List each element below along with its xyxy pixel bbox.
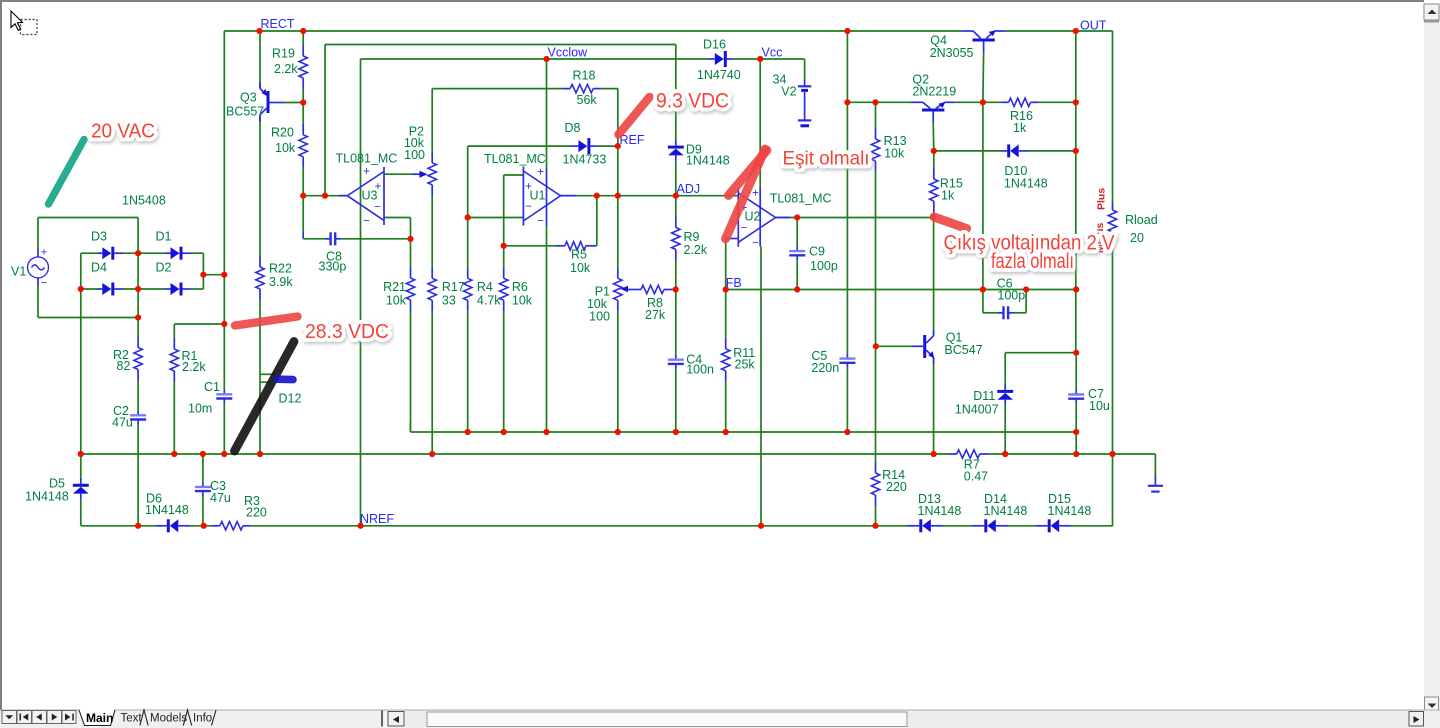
svg-text:Info: Info — [193, 713, 212, 725]
svg-text:−: − — [363, 216, 370, 228]
svg-text:RECT: RECT — [261, 17, 295, 31]
svg-text:Models: Models — [150, 713, 187, 725]
svg-text:D11: D11 — [973, 389, 995, 403]
svg-text:1k: 1k — [1013, 121, 1027, 135]
svg-text:47u: 47u — [112, 416, 133, 430]
svg-text:10k: 10k — [386, 294, 407, 308]
svg-text:100n: 100n — [686, 363, 714, 377]
svg-text:R20: R20 — [271, 126, 294, 140]
svg-text:FB: FB — [726, 276, 742, 290]
svg-text:+: + — [363, 166, 370, 178]
svg-text:BC547: BC547 — [944, 343, 982, 357]
svg-text:−: − — [525, 201, 532, 213]
svg-text:1N4148: 1N4148 — [984, 504, 1028, 518]
svg-text:220: 220 — [886, 480, 907, 494]
svg-text:47u: 47u — [210, 491, 231, 505]
svg-text:U3: U3 — [362, 189, 378, 203]
svg-text:1N4148: 1N4148 — [918, 504, 962, 518]
svg-text:2N2219: 2N2219 — [912, 85, 956, 99]
svg-text:10k: 10k — [512, 294, 533, 308]
svg-text:10k: 10k — [570, 261, 591, 275]
svg-text:R6: R6 — [512, 280, 528, 294]
svg-text:R21: R21 — [383, 280, 406, 294]
svg-text:D8: D8 — [565, 121, 581, 135]
svg-text:82: 82 — [117, 359, 131, 373]
svg-text:1N4148: 1N4148 — [1048, 504, 1092, 518]
svg-text:100: 100 — [404, 148, 425, 162]
svg-text:U2: U2 — [745, 210, 761, 224]
svg-text:R22: R22 — [269, 262, 292, 276]
svg-text:2.2k: 2.2k — [684, 243, 708, 257]
svg-text:33: 33 — [442, 294, 456, 308]
svg-text:ADJ: ADJ — [677, 182, 701, 196]
svg-text:fazla olmalı: fazla olmalı — [991, 250, 1074, 273]
svg-text:OUT: OUT — [1080, 19, 1107, 33]
svg-text:D16: D16 — [703, 38, 726, 52]
svg-text:100: 100 — [589, 310, 610, 324]
svg-text:TL081_MC: TL081_MC — [770, 192, 832, 206]
svg-text:Plus: Plus — [1096, 188, 1108, 210]
svg-text:10k: 10k — [884, 147, 905, 161]
svg-text:1N4007: 1N4007 — [955, 403, 999, 417]
svg-text:R18: R18 — [573, 69, 596, 83]
svg-text:1N4148: 1N4148 — [145, 503, 189, 517]
svg-text:0.47: 0.47 — [964, 470, 988, 484]
svg-text:−: − — [741, 223, 748, 235]
svg-text:R9: R9 — [684, 230, 700, 244]
svg-text:1N4148: 1N4148 — [25, 490, 69, 504]
svg-text:TL081_MC: TL081_MC — [336, 152, 398, 166]
svg-text:D5: D5 — [49, 477, 65, 491]
svg-text:220: 220 — [246, 506, 267, 520]
svg-text:R17: R17 — [442, 280, 465, 294]
svg-text:2.2k: 2.2k — [182, 360, 206, 374]
svg-text:R19: R19 — [272, 47, 295, 61]
svg-text:−: − — [752, 238, 759, 250]
svg-text:R4: R4 — [477, 280, 493, 294]
svg-text:100p: 100p — [997, 289, 1025, 303]
svg-text:1N4148: 1N4148 — [1004, 177, 1048, 191]
svg-text:100p: 100p — [810, 259, 838, 273]
svg-text:−: − — [41, 278, 48, 290]
svg-text:Q3: Q3 — [240, 91, 257, 105]
svg-text:1k: 1k — [941, 189, 955, 203]
svg-text:1N4733: 1N4733 — [563, 153, 607, 167]
svg-text:10u: 10u — [1089, 399, 1110, 413]
svg-text:28.3 VDC: 28.3 VDC — [305, 321, 389, 343]
svg-text:V1: V1 — [11, 265, 26, 279]
svg-text:−: − — [374, 202, 381, 214]
svg-text:20 VAC: 20 VAC — [91, 121, 155, 143]
svg-text:4.7k: 4.7k — [477, 294, 501, 308]
svg-text:9.3 VDC: 9.3 VDC — [656, 90, 729, 113]
svg-text:330p: 330p — [319, 260, 347, 274]
svg-text:D2: D2 — [156, 261, 172, 275]
svg-text:NREF: NREF — [360, 512, 394, 526]
svg-text:D4: D4 — [91, 261, 107, 275]
svg-text:Text: Text — [121, 713, 143, 725]
svg-text:Eşit olmalı: Eşit olmalı — [783, 149, 870, 170]
svg-text:V2: V2 — [781, 85, 796, 99]
svg-text:10m: 10m — [188, 402, 212, 416]
svg-text:1N4148: 1N4148 — [686, 154, 730, 168]
svg-text:C9: C9 — [809, 245, 825, 259]
svg-text:2N3055: 2N3055 — [930, 46, 974, 60]
svg-text:+: + — [752, 188, 759, 200]
svg-text:10k: 10k — [275, 141, 296, 155]
svg-text:D1: D1 — [156, 230, 172, 244]
svg-text:TL081_MC: TL081_MC — [484, 152, 546, 166]
svg-text:+: + — [41, 247, 47, 259]
svg-text:1N4740: 1N4740 — [697, 68, 741, 82]
svg-text:220n: 220n — [811, 361, 839, 375]
svg-text:D12: D12 — [279, 392, 302, 406]
svg-text:C1: C1 — [204, 380, 220, 394]
svg-text:2.2k: 2.2k — [274, 62, 298, 76]
svg-text:3.9k: 3.9k — [269, 275, 293, 289]
svg-text:BC557: BC557 — [226, 105, 264, 119]
svg-text:20: 20 — [1130, 231, 1144, 245]
svg-text:−: − — [537, 216, 544, 228]
svg-text:27k: 27k — [645, 308, 666, 322]
svg-text:56k: 56k — [577, 93, 598, 107]
svg-text:Main: Main — [86, 711, 113, 725]
svg-text:Rload: Rload — [1125, 213, 1158, 227]
svg-text:Vcclow: Vcclow — [548, 46, 589, 60]
svg-text:+: + — [537, 167, 544, 179]
svg-text:25k: 25k — [735, 358, 756, 372]
svg-text:Vcc: Vcc — [762, 46, 783, 60]
svg-text:D3: D3 — [91, 230, 107, 244]
svg-text:U1: U1 — [530, 189, 546, 203]
svg-text:1N5408: 1N5408 — [122, 194, 166, 208]
svg-text:R5: R5 — [571, 248, 587, 262]
